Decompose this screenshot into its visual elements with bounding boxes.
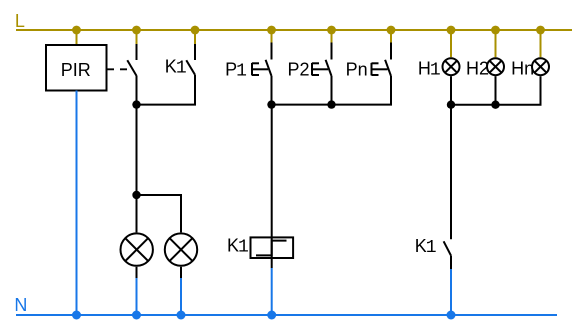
svg-text:K1: K1 [227, 236, 249, 258]
junction on N at bottom contact [447, 311, 456, 320]
wire lamp E2 bottom terminal [180, 267, 182, 278]
PIR-driven contact (NO switch) [127, 44, 136, 76]
wire contact K1 to N (blue) [450, 269, 452, 315]
push button P2 (NO momentary) [312, 43, 332, 77]
wire stub L to Pn (phase) [390, 30, 392, 43]
wire junction A to junction B [136, 105, 138, 195]
junction on L at Pn [387, 26, 396, 35]
junction on L at P2 [327, 26, 336, 35]
junction on L at Hn [536, 26, 545, 35]
wire contact K1 to junction A [137, 75, 196, 105]
lamp Hn [532, 58, 549, 75]
lamp E1 [121, 233, 153, 265]
junction on L at H1 [447, 26, 456, 35]
lamp H1 [443, 58, 460, 75]
wire PIR contact to junction A [136, 76, 138, 105]
junction at P2 bottom [327, 100, 335, 108]
relay coil K1 (impulse relay) [251, 237, 294, 258]
wire stub L to contact K1 (phase) [194, 30, 196, 44]
svg-text:K1: K1 [165, 56, 187, 78]
wire P2 to bus [331, 76, 333, 105]
wire stub L to P1 (phase) [271, 30, 273, 43]
wire L to H1 (phase) [450, 30, 452, 57]
svg-text:Pn: Pn [346, 59, 368, 79]
wire coil K1 to N (blue) [271, 268, 273, 315]
junction on N at E1 [132, 311, 141, 320]
wire contact K1 bottom terminal [450, 256, 452, 269]
wire Hn to lamp bus [451, 76, 541, 105]
relay contact K1 (NO) [186, 44, 195, 75]
junction at P1 bottom [267, 100, 275, 108]
wire lamp E1 to N (blue) [136, 278, 138, 315]
svg-text:P2: P2 [288, 59, 310, 79]
wire stub L to PIR contact (phase) [136, 30, 138, 44]
relay contact K1 (bottom, NO) [444, 241, 451, 255]
svg-text:P1: P1 [225, 59, 247, 81]
lamp H2 [487, 58, 504, 75]
wire junction C to contact K1 (bottom) [450, 105, 452, 240]
svg-text:N: N [14, 295, 27, 315]
wire button bus to coil K1 [271, 105, 273, 238]
mechanical linkage PIR to its contact (dashed) [107, 68, 132, 70]
wire coil K1 bottom terminal [271, 258, 273, 268]
push button P1 (NO momentary) [252, 43, 272, 77]
wire P1 to bus [271, 76, 273, 105]
junction on L at P1 [267, 26, 276, 35]
junction A [132, 100, 140, 108]
junction B (lamp branch) [132, 191, 140, 199]
wire PIR to N (neutral, blue) [76, 91, 78, 316]
svg-text:Hn: Hn [511, 58, 534, 78]
wire H2 to lamp bus [495, 76, 497, 105]
svg-text:PIR: PIR [61, 60, 91, 80]
push button Pn (NO momentary) [372, 43, 392, 77]
svg-text:H2: H2 [466, 58, 489, 78]
junction on N at E2 [177, 311, 186, 320]
junction on L at PIR feed [72, 26, 81, 35]
wire lamp E1 bottom terminal [136, 267, 138, 278]
junction at H2 bottom [491, 101, 499, 109]
junction on N at PIR [72, 311, 81, 320]
junction C at H1 bottom [447, 101, 455, 109]
wire L to H2 (phase) [495, 30, 497, 57]
wire L to PIR (phase) [76, 30, 78, 45]
wire H1 to lamp bus [450, 76, 452, 105]
net N (neutral rail) [16, 314, 557, 316]
wire stub L to P2 (phase) [331, 30, 333, 43]
wire Pn to bus [272, 76, 392, 105]
junction on L at H2 [491, 26, 500, 35]
wire junction B to lamp E2 [137, 195, 182, 232]
wire lamp E2 to N (blue) [180, 278, 182, 315]
svg-text:L: L [15, 11, 25, 31]
net L (phase rail) [16, 29, 572, 31]
junction on L at contact K1 [191, 26, 200, 35]
PIR sensor module U1 [46, 45, 107, 91]
wire L to Hn (phase) [540, 30, 542, 57]
junction on L at PIR contact [132, 26, 141, 35]
svg-text:H1: H1 [418, 58, 441, 80]
junction on N at coil [267, 311, 276, 320]
lamp E2 [165, 233, 197, 265]
wire junction B to lamp E1 [136, 195, 138, 232]
svg-text:K1: K1 [415, 236, 437, 258]
